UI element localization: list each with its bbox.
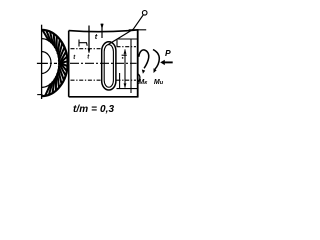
torque arrow Mk xyxy=(139,50,149,68)
screw body bottom edge xyxy=(69,96,139,98)
wheel ring outer stadium (side view) xyxy=(102,42,116,90)
step edge below centerline xyxy=(119,73,121,89)
thread root hidden line upper left xyxy=(71,48,101,50)
rotation bump on right edge xyxy=(138,74,140,83)
pitch dimension tick right xyxy=(101,24,103,39)
screw body left edge xyxy=(68,31,70,97)
svg-text:P: P xyxy=(165,48,171,58)
leader diagonal lower segment xyxy=(108,29,133,45)
journal upper line xyxy=(117,38,138,40)
wheel horizontal centerline xyxy=(37,62,57,64)
leader balloon circle xyxy=(142,11,147,16)
leader diagonal upper segment xyxy=(133,15,143,29)
screw body top edge xyxy=(69,30,139,32)
journal lower line xyxy=(117,88,138,90)
force P arrowhead xyxy=(160,60,165,65)
wheel rim inner arc xyxy=(24,39,59,88)
wheel hub bore arc xyxy=(32,52,51,74)
screw centerline xyxy=(70,62,137,64)
svg-text:t/m = 0,3: t/m = 0,3 xyxy=(73,104,115,115)
thread profile hook xyxy=(79,40,87,47)
pitch dimension tick left xyxy=(88,26,90,53)
screw body right edge xyxy=(137,30,139,97)
moment arrow Mi xyxy=(153,50,159,70)
wheel ring inner stadium (side view) xyxy=(104,45,113,88)
diameter dimension arrow top xyxy=(124,49,127,54)
diameter dimension line right of ring xyxy=(124,50,126,88)
force P arrow shaft xyxy=(164,61,173,63)
journal shoulder line xyxy=(130,39,132,93)
step edge above centerline xyxy=(116,40,118,48)
pitch tick right arrowhead xyxy=(100,24,103,30)
wheel outer rim arc xyxy=(15,30,67,96)
wheel rim teeth hatching xyxy=(42,30,67,96)
thread root hidden line lower left xyxy=(71,79,101,81)
wheel vertical centerline xyxy=(41,25,43,99)
leader shelf line xyxy=(129,29,147,31)
wheel centerline bottom tick xyxy=(37,94,42,96)
pitch tick left arrowhead xyxy=(88,49,91,54)
torque arrow Mk head xyxy=(142,69,145,73)
thread root hidden line upper right xyxy=(117,46,137,48)
moment arrow Mi head xyxy=(154,68,157,73)
diameter dimension arrow bottom xyxy=(124,83,127,88)
diameter dimension tick xyxy=(122,54,127,56)
thread root hidden line lower right xyxy=(117,79,137,81)
svg-text:Mи: Mи xyxy=(154,79,164,86)
diameter dimension tick dot xyxy=(122,57,123,58)
